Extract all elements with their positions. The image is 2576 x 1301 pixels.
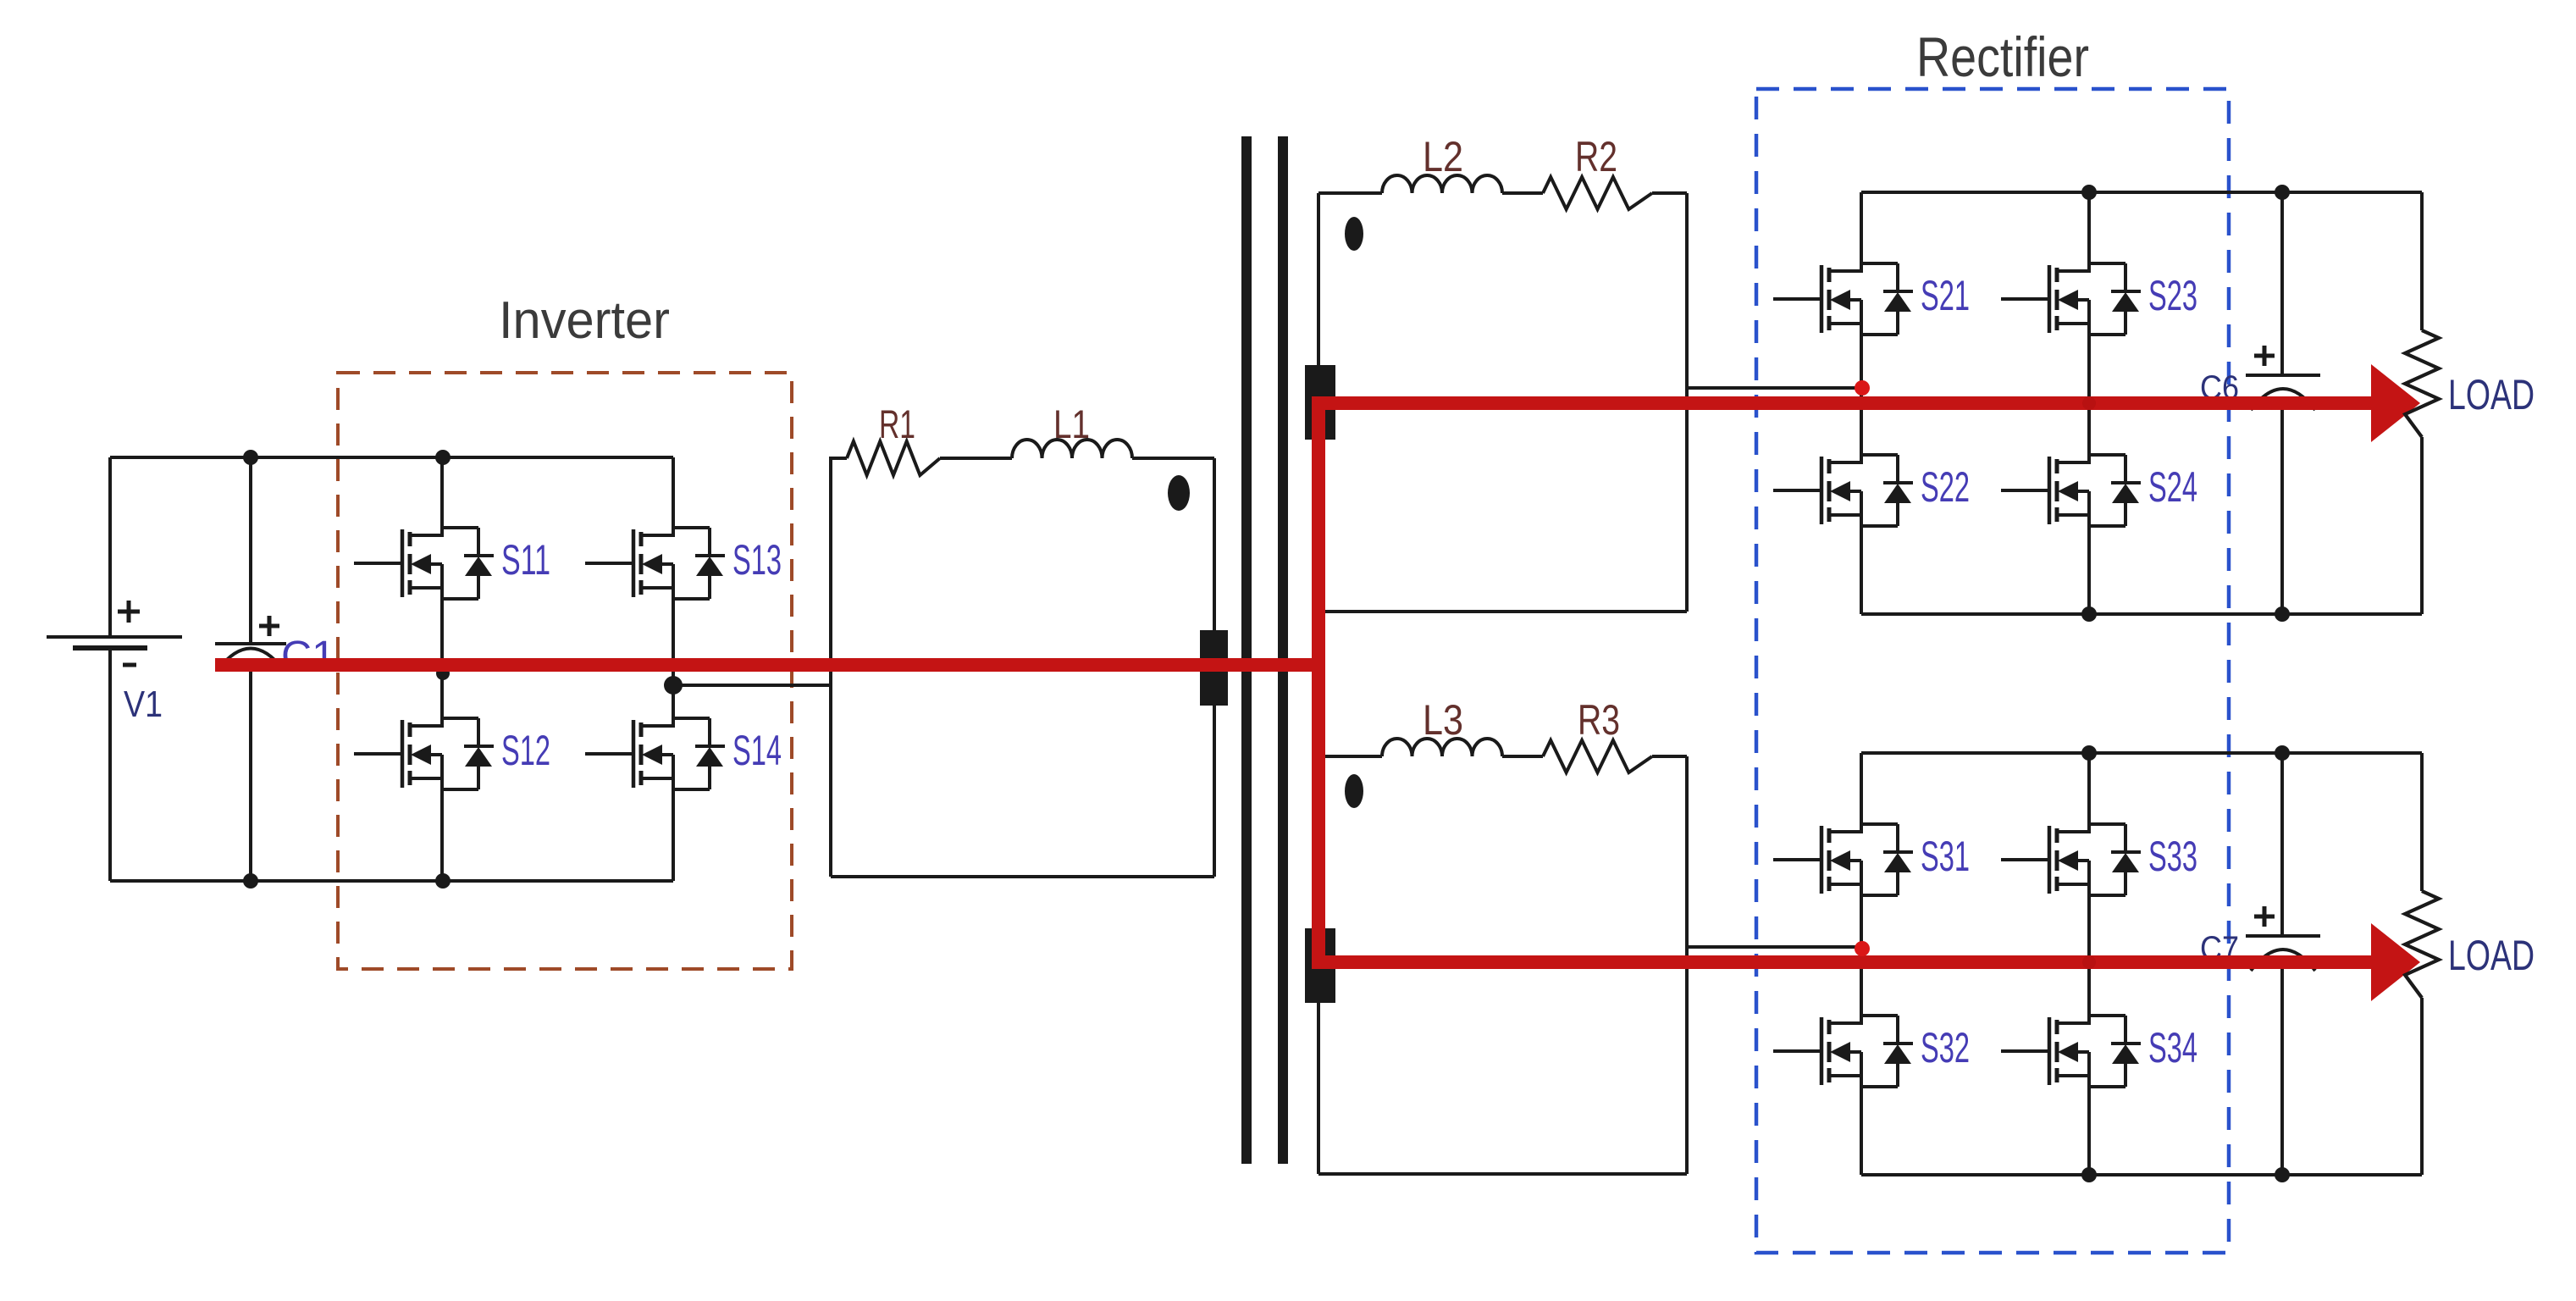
resistor R3 xyxy=(1543,696,1652,772)
svg-text:C1: C1 xyxy=(281,634,335,678)
wire sec-bot loop bottom edge xyxy=(1318,1172,1687,1176)
capacitor C6 xyxy=(2200,192,2320,614)
wire inverter output to primary loop xyxy=(673,684,831,687)
sec-top winding terminal xyxy=(1305,365,1335,440)
transistor S32 xyxy=(1773,949,1970,1175)
power flow path secondary (red) xyxy=(1318,403,2381,962)
wire primary loop right edge upper xyxy=(1213,458,1216,634)
resistor LOAD zigzag overdraw bottom xyxy=(2405,891,2439,998)
svg-text:LOAD: LOAD xyxy=(2448,371,2535,418)
svg-text:S14: S14 xyxy=(732,727,782,774)
svg-text:S23: S23 xyxy=(2148,272,2197,319)
wire primary loop top edge left xyxy=(829,457,847,460)
transistor S24 xyxy=(2001,451,2197,614)
transformer core line 1 xyxy=(1241,136,1252,1164)
inverter dashed box xyxy=(338,373,792,969)
power flow arrow bottom xyxy=(2371,923,2420,1001)
sec-top phase dot xyxy=(1345,217,1363,251)
transistor S31 xyxy=(1773,753,1970,949)
power flow path primary (red) xyxy=(215,658,1325,672)
svg-text:R2: R2 xyxy=(1575,133,1617,180)
wire sec-top loop left edge upper xyxy=(1317,193,1320,367)
primary winding terminal xyxy=(1200,630,1228,706)
wire between L3 and R3 xyxy=(1502,755,1543,758)
wire sec-bot loop right edge xyxy=(1685,756,1689,1174)
resistor LOAD xyxy=(2405,192,2535,614)
wire sec-top loop top edge right xyxy=(1652,191,1687,195)
wire C7 top rail xyxy=(1861,751,2422,755)
wire between L2 and R2 xyxy=(1502,191,1543,195)
node S13/S14 output xyxy=(664,676,683,695)
transistor S34 xyxy=(2001,1012,2197,1175)
wire primary loop left edge xyxy=(829,458,832,877)
svg-text:S34: S34 xyxy=(2148,1024,2197,1071)
wire primary loop bottom edge xyxy=(831,875,1214,878)
wire sec-top loop right edge xyxy=(1685,193,1689,612)
resistor R1 xyxy=(847,401,940,475)
wire sec-bot loop left edge lower xyxy=(1317,1001,1320,1174)
wire C6 top rail xyxy=(1861,191,2422,194)
wire sec-top loop bottom edge xyxy=(1318,610,1687,613)
primary phase dot xyxy=(1168,475,1190,511)
wire sec-top loop left edge lower xyxy=(1317,438,1320,612)
svg-text:S31: S31 xyxy=(1921,833,1970,880)
node top rail / cap xyxy=(2275,185,2290,200)
svg-text:S22: S22 xyxy=(1921,463,1970,511)
wire sec-bot tap to rectifier xyxy=(1687,945,1861,949)
wire between R1 and L1 xyxy=(940,457,1012,460)
rectifier dashed box xyxy=(1756,89,2229,1253)
sec-bot winding terminal xyxy=(1305,928,1335,1003)
wire sec-bot loop top edge left xyxy=(1318,755,1382,758)
svg-text:V1: V1 xyxy=(124,684,163,725)
power flow arrow top xyxy=(2371,364,2420,442)
node top rail / cap xyxy=(2275,745,2290,761)
wire sec-top loop top edge left xyxy=(1318,191,1382,195)
wire C6 bottom rail xyxy=(1861,612,2422,616)
transistor S12 xyxy=(354,673,550,881)
inductor L3 xyxy=(1382,696,1502,756)
battery V1 xyxy=(47,457,182,881)
wire bottom rail xyxy=(110,879,673,883)
wire sec-top tap to rectifier xyxy=(1687,386,1861,390)
node bottom rail / right leg xyxy=(2081,1167,2097,1182)
wire sec-bot loop left edge upper xyxy=(1317,756,1320,930)
node bottom rail / C1 xyxy=(243,873,258,889)
sec-bot phase dot xyxy=(1345,774,1363,808)
svg-text:S12: S12 xyxy=(501,727,550,774)
svg-text:LOAD: LOAD xyxy=(2448,932,2535,979)
inductor L2 xyxy=(1382,133,1502,193)
svg-text:Rectifier: Rectifier xyxy=(1916,25,2089,88)
svg-text:L2: L2 xyxy=(1423,133,1463,180)
transistor S14 xyxy=(585,685,782,881)
wire primary loop right edge lower xyxy=(1213,703,1216,877)
capacitor C1 xyxy=(215,457,335,881)
svg-text:R3: R3 xyxy=(1578,696,1620,744)
transistor S33 xyxy=(2001,753,2197,1023)
wire C7 bottom rail xyxy=(1861,1173,2422,1176)
svg-text:S11: S11 xyxy=(501,536,550,584)
svg-text:R1: R1 xyxy=(879,401,915,446)
svg-text:L1: L1 xyxy=(1053,401,1090,446)
transistor S21 xyxy=(1773,192,1970,388)
node top rail / right leg xyxy=(2081,185,2097,200)
resistor LOAD zigzag overdraw top xyxy=(2405,330,2439,437)
node S11/S12 xyxy=(436,667,450,680)
svg-text:S13: S13 xyxy=(732,536,782,584)
red node top-right xyxy=(2082,396,2096,410)
inductor L1 xyxy=(1012,401,1132,458)
node bottom rail / S12 xyxy=(435,873,451,889)
transistor S11 xyxy=(354,457,550,670)
svg-text:S33: S33 xyxy=(2148,833,2197,880)
wire primary loop top edge right xyxy=(1132,457,1214,460)
wire top rail xyxy=(110,456,673,459)
red node bottom-right xyxy=(2082,955,2096,969)
transistor S22 xyxy=(1773,388,1970,614)
wire sec-bot loop top edge right xyxy=(1652,755,1687,758)
resistor LOAD xyxy=(2405,753,2535,1175)
transformer core line 2 xyxy=(1278,136,1288,1164)
resistor R2 xyxy=(1543,133,1652,209)
node top rail / right leg xyxy=(2081,745,2097,761)
node bottom rail / cap xyxy=(2275,1167,2290,1182)
transistor S23 xyxy=(2001,192,2197,462)
svg-text:S32: S32 xyxy=(1921,1024,1970,1071)
red node bottom-left xyxy=(1855,941,1870,956)
svg-text:S24: S24 xyxy=(2148,463,2197,511)
capacitor C7 xyxy=(2200,753,2320,1175)
svg-text:Inverter: Inverter xyxy=(499,291,670,350)
node top rail / S11 xyxy=(435,450,451,465)
svg-text:S21: S21 xyxy=(1921,272,1970,319)
red node top-left xyxy=(1855,380,1870,396)
svg-text:L3: L3 xyxy=(1423,696,1463,744)
transistor S13 xyxy=(585,457,782,685)
node top rail / C1 xyxy=(243,450,258,465)
node bottom rail / cap xyxy=(2275,606,2290,622)
node bottom rail / right leg xyxy=(2081,606,2097,622)
